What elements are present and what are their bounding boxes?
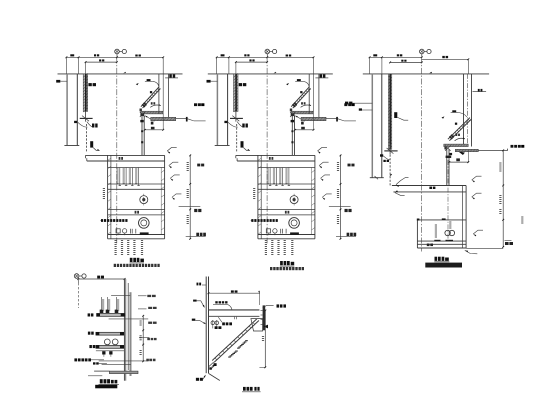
ZJA-2: strut black mark (150, 91, 152, 93)
ZJA-4: strut black mark (300, 91, 302, 93)
PTZJ-3: beam mid ticks (233, 317, 235, 319)
ZJA-4: subtitle (270, 267, 272, 270)
ZJA-2: weld arrow black (136, 83, 139, 85)
ZJA-4: black label 2-L1/3 (251, 219, 253, 222)
ZJA-5: bottom right level tick (505, 240, 512, 242)
ZJA-6a: rebar verticals and labels (101, 297, 103, 311)
ZJA-6a: title (100, 379, 103, 383)
ZJA-2: big anchor circle (139, 218, 150, 229)
ZJA-6a: circles pair (104, 339, 110, 345)
ZJA-4: far right level leaders (348, 164, 351, 167)
ZJA-5: right dimension line (502, 150, 504, 247)
ZJA-5: top dim line right 305 (422, 58, 469, 60)
ZJA-6a: black label Pu (93, 362, 96, 364)
ZJA-2: top dimension line (66, 56, 163, 58)
ZJA-4: column anchor bar (230, 117, 243, 119)
ZJA-4: bracket seat plate (291, 111, 313, 114)
ZJA-5: ground line tick arrow (429, 72, 432, 74)
ZJA-4: big anchor circle (289, 218, 300, 229)
ZJA-2: elevation label 3.05 (194, 103, 197, 106)
ZJA-2: wall line gray (66, 74, 68, 145)
ZJA-5: post center dash in pedestal (447, 160, 449, 241)
ZJA-2: column anchor bar (80, 117, 93, 119)
ZJA-5: apex black arrow (458, 151, 465, 155)
ZJA-2: top dim extension lines (65, 57, 67, 74)
ZJA-4: pedestal toe top (236, 154, 315, 156)
ZJA-4: pedestal edge hatch ticks (258, 158, 261, 161)
ZJA-2: label 500 rotated with leader (90, 141, 93, 147)
PTZJ-3: bolt label M16 (215, 326, 218, 329)
ZJA-4: plate edge continuation (326, 118, 337, 120)
PTZJ-3: top chord beam (209, 309, 260, 311)
PTZJ-3: column top tick and label (202, 284, 206, 286)
ZJA-5: left wall lines (371, 74, 373, 178)
ZJA-2: pedestal left rotated label (103, 188, 105, 189)
ZJA-2: pedestal horizontal lines (108, 167, 165, 169)
ZJA-4: grid axis bubble (265, 49, 270, 54)
PTZJ-3: gusset at end (251, 319, 263, 331)
ZJA-5: label 500 rotated with leader (394, 112, 397, 118)
ZJA-6a: rebar cluster top line (111, 295, 130, 297)
ZJA-2: strut top label (147, 79, 151, 81)
PTZJ-3: strut rotated labels (237, 348, 240, 349)
ZJA-4: right bent leader arrows (318, 151, 321, 154)
ZJA-5: apex connection (444, 147, 446, 150)
ZJA-4: diagonal strut (291, 87, 309, 107)
ZJA-5: grid axis bubble (420, 49, 425, 54)
ZJA-5: floor level line (363, 73, 489, 75)
ZJA-2: pedestal toe top (86, 154, 165, 156)
ZJA-5: weld arrow black (442, 116, 445, 118)
ZJA-4: label 500 rotated with leader (241, 141, 244, 147)
ZJA-2: second dimension line (86, 61, 117, 63)
ZJA-5: title (435, 257, 438, 261)
ZJA-2: floor level line (58, 73, 183, 75)
PTZJ-3: bottom gusset label 8 (214, 363, 217, 366)
ZJA-4: bottom rotated labels (265, 240, 267, 241)
ZJA-6a: grid axis bubble (74, 274, 79, 279)
ZJA-6a: bottom gray bar (109, 371, 138, 374)
PTZJ-3: angle label L75x6 (222, 322, 225, 325)
ZJA-5: small tick arrow at dash line (389, 174, 392, 177)
ZJA-2: grid axis bubble (115, 49, 120, 54)
ZJA-6a: beam bar 3 (96, 345, 124, 348)
ZJA-4: apex connection (290, 109, 292, 112)
ZJA-2: wall label 250 (56, 80, 60, 83)
ZJA-4: middle bolt circle (290, 196, 298, 204)
ZJA-5: bottom line extension right (466, 247, 503, 249)
ZJA-4: top dim labels (221, 54, 225, 56)
ZJA-5: floor level label 150 (478, 89, 480, 92)
PTZJ-3: gusset black arrow (263, 325, 268, 329)
ZJA-4: embedded column with hatch (234, 74, 239, 112)
ZJA-2: bottom anchor symbols (116, 229, 120, 233)
ZJA-2: top dim labels (70, 54, 74, 56)
ZJA-5: column post below apex (446, 149, 448, 185)
ZJA-6a: elevation ticks and labels (138, 295, 147, 297)
ZJA-2: right wall verticals (158, 74, 160, 114)
PTZJ-3: column verticals (205, 277, 207, 374)
ZJA-4: right wall verticals (308, 74, 310, 114)
ZJA-2: anchor label 8 (74, 121, 77, 123)
ZJA-2: wall bottom close (64, 145, 79, 147)
ZJA-2: angle arc (150, 105, 160, 107)
ZJA-2: wall line inner (76, 74, 78, 145)
ZJA-2: apex connection (140, 109, 142, 112)
ZJA-2: anchor bolts K rows (119, 168, 121, 186)
ZJA-2: plate edge continuation (176, 118, 187, 120)
ZJA-5: floor slab lines (392, 185, 466, 187)
ZJA-5: grid center line dash-dot (420, 57, 422, 251)
ZJA-6a: long level line e5 (99, 360, 149, 362)
ZJA-5: anchor label 700 (383, 160, 385, 162)
ZJA-4: anchor label 700 (242, 124, 244, 128)
ZJA-5: strut black mark (455, 123, 457, 125)
ZJA-2: embedded column with hatch (83, 74, 88, 112)
ZJA-4: column post (291, 116, 293, 156)
ZJA-5: top dimension line (370, 56, 422, 58)
ZJA-2: bracket seat plate (141, 111, 163, 114)
ZJA-6a: left extension dashed (77, 279, 79, 283)
ZJA-2: anchor dashed line (85, 124, 87, 153)
ZJA-4: wall bottom close (215, 145, 230, 147)
ZJA-4: top dim extension lines (216, 57, 218, 74)
ZJA-6a: column lines (123, 279, 125, 381)
ZJA-4: anchor bolts K rows (269, 168, 271, 186)
ZJA-2: pedestal band labels (119, 157, 121, 160)
ZJA-4: gusset gray plate (301, 117, 326, 120)
ZJA-4: pedestal band labels (269, 157, 271, 160)
ZJA-5: pedestal box (417, 219, 466, 221)
ZJA-4: second dimension line (236, 61, 267, 63)
ZJA-5: bracket dim 14 (449, 161, 468, 163)
ZJA-5: second dimension line (390, 61, 422, 63)
ZJA-2: base weld black band (140, 232, 149, 235)
ZJA-2: grid center line dash-dot (116, 57, 118, 243)
PTZJ-3: right end plate (263, 305, 266, 330)
ZJA-4: right dimension chain (340, 155, 342, 238)
ZJA-4: apex leader and label (296, 116, 305, 121)
ZJA-2: black label 2-L1/3 (101, 219, 103, 222)
ZJA-6a: beam bar 1 (97, 314, 125, 317)
ZJA-5: bottom right bent arrow (465, 250, 468, 252)
ZJA-5: diagonal strut (448, 118, 470, 140)
PTZJ-3: bottom gusset (209, 373, 220, 380)
ZJA-4: column label 500 (239, 83, 242, 86)
ZJA-6a: black label 2-L (74, 358, 77, 361)
ZJA-5: anchor label 8 (380, 154, 383, 156)
ZJA-2: diagonal strut (141, 87, 159, 107)
ZJA-4: elevation label 3.05 (344, 103, 347, 106)
ZJA-4: floor level line (208, 73, 333, 75)
ZJA-4: wall line inner (227, 74, 229, 145)
ZJA-4: strut top label (297, 79, 301, 81)
ZJA-4: weld arrow black (286, 83, 289, 85)
ZJA-2: right bent leader arrows (167, 151, 170, 154)
ZJA-5: left wall labels (345, 102, 348, 105)
ZJA-2: floor level label 150 (169, 74, 172, 77)
ZJA-4: floor level label 150 (320, 74, 323, 77)
PTZJ-3: diagonal strut (212, 319, 257, 361)
ZJA-2: anchor label 700 (92, 124, 94, 128)
ZJA-2: subtitle (114, 264, 116, 267)
ZJA-4: wall line gray (216, 74, 218, 145)
ZJA-2: bracket dim 14 (145, 129, 163, 131)
PTZJ-3: left bent arrow 1 (193, 300, 197, 302)
ZJA-5: right column verticals (463, 74, 465, 147)
PTZJ-3: end plate leader and label (263, 306, 274, 308)
PTZJ-3: top dimension line 1500 (209, 292, 260, 294)
PTZJ-3: right dimension 88 (264, 311, 266, 368)
ZJA-4: top dimension line (217, 56, 314, 58)
ZJA-5: embedded column with hatch (388, 74, 391, 149)
ZJA-2: right dimension chain (189, 155, 191, 238)
ZJA-4: anchor label 8 (224, 121, 227, 123)
ZJA-5: label 1675 rotated (521, 217, 523, 218)
ZJA-5: strut label (452, 110, 456, 112)
ZJA-4: bottom anchor symbols (266, 229, 270, 233)
ZJA-6a: beam bar 2 (96, 332, 124, 335)
PTZJ-3: beam bolts (211, 321, 215, 325)
ZJA-5: column anchor bar (384, 150, 397, 152)
PTZJ-3: title PTZJ-3 (243, 387, 246, 391)
ZJA-2: apex leader and label (145, 116, 154, 121)
ZJA-5: angle arc (455, 138, 465, 141)
ZJA-4: anchor dashed line (236, 124, 238, 153)
ZJA-4: wall label 250 (207, 80, 211, 83)
ZJA-4: pedestal left rotated label (253, 188, 255, 189)
ZJA-2: column label 500 (88, 83, 91, 86)
ZJA-2: column post (141, 116, 143, 156)
ZJA-2: pedestal outline (107, 155, 109, 238)
ZJA-2: far right level leaders (197, 164, 200, 167)
ZJA-5: anchor dashed line (389, 155, 391, 186)
ZJA-5: floor bent arrows (396, 185, 399, 187)
ZJA-4: bracket dim 14 (295, 129, 313, 131)
ZJA-5: pedestal black ticks (417, 219, 420, 221)
ZJA-5: gusset gray plate (455, 149, 478, 151)
ZJA-6a: column gray band (130, 292, 132, 376)
ZJA-2: bottom rotated labels (115, 240, 117, 241)
ZJA-6a: lower bolts (102, 351, 105, 354)
ZJA-4: title (280, 261, 283, 265)
ZJA-4: base weld black band (290, 232, 299, 235)
ZJA-5: bracket seat plate (444, 144, 468, 147)
ZJA-6a: top dimension line (78, 278, 124, 280)
ZJA-5: pedestal rotated labels (435, 225, 437, 226)
PTZJ-3: top chord label (215, 301, 217, 303)
ZJA-2: pedestal edge hatch ticks (108, 158, 111, 161)
ZJA-6a: right dim chain (142, 316, 144, 362)
ZJA-4: angle arc (301, 105, 311, 107)
ZJA-5: floor slab label 700a (429, 187, 432, 189)
ZJA-5: pedestal label 750 (427, 244, 430, 247)
ZJA-5: pedestal bolt circles (445, 230, 450, 235)
PTZJ-3: bottom left arrow M16 (196, 378, 199, 381)
ZJA-2: gusset gray plate (151, 117, 176, 120)
ZJA-2: title (130, 258, 133, 262)
ZJA-5: plate line to right with end tick (478, 149, 508, 151)
ZJA-4: grid center line dash-dot (266, 57, 268, 243)
ZJA-2: middle bolt circle (140, 196, 148, 204)
ZJA-5: elevation label 9.75 (511, 145, 514, 148)
ZJA-4: pedestal horizontal lines (258, 167, 315, 169)
ZJA-4: pedestal outline (257, 155, 259, 238)
PTZJ-3: left bent arrow 2 (192, 319, 196, 321)
ZJA-5: right bent arrows (472, 180, 475, 182)
